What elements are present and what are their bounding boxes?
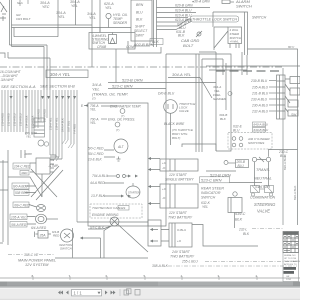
label 109-C RED (13, 202, 30, 208)
svg-text:REAR STEER: REAR STEER (201, 187, 224, 191)
label 308-A BLK with phantom wire (152, 264, 297, 268)
comb connector feet (53, 140, 74, 161)
boxed label 106-A RED (10, 222, 27, 228)
labels WHT rows top-left (0, 70, 22, 82)
svg-text:COMBINATION: COMBINATION (250, 196, 275, 200)
label 24V START TWO BATTERY (170, 250, 195, 259)
label 632-E and air cylinder switches dashed box (228, 125, 272, 150)
svg-text:BLK: BLK (235, 218, 243, 222)
label 614-B RED (52, 230, 60, 238)
label THROTTLE LOCK VALVE (179, 102, 196, 113)
svg-text:(7): (7) (116, 128, 119, 132)
svg-text:YEL: YEL (26, 135, 32, 139)
alternator symbol top-left edge (0, 2, 7, 21)
svg-text:5/0-C RED: 5/0-C RED (88, 147, 104, 151)
label 30-1A YEL (40, 1, 50, 9)
svg-text:SENDER: SENDER (213, 97, 227, 101)
svg-text:+O: +O (162, 187, 167, 191)
svg-text:THROTTLE LOCK SWITCH: THROTTLE LOCK SWITCH (192, 18, 237, 22)
connector arrows box2 (148, 185, 167, 205)
svg-text:ENG. WATER TEMP.: ENG. WATER TEMP. (110, 105, 141, 109)
label REAR STEER INDICATOR SWITCH (201, 187, 224, 200)
relay block upper left panel (34, 118, 45, 137)
alarm switch stub box (222, 0, 234, 4)
svg-text:SEE SECTION A-A: SEE SECTION A-A (1, 84, 36, 89)
phantom wire 232-L BLK (238, 228, 283, 237)
svg-text:6/0-A BLU: 6/0-A BLU (13, 185, 28, 189)
svg-text:BLK: BLK (220, 117, 227, 121)
svg-text:D/0-B BLU: D/0-B BLU (158, 92, 175, 96)
boxed label RED small (20, 171, 29, 176)
svg-text:104-C RED: 104-C RED (14, 165, 31, 169)
svg-text:INDICATOR: INDICATOR (201, 191, 221, 195)
svg-text:SWITCH: SWITCH (252, 16, 267, 20)
label 255-L BLU with dashed wire (181, 260, 297, 264)
rear steer connector box (228, 198, 242, 229)
label 304-B BLK (219, 113, 227, 121)
svg-text:210-A RED: 210-A RED (0, 113, 4, 126)
labels inside shift select box (134, 3, 148, 38)
svg-text:/09-C RED: /09-C RED (13, 204, 30, 208)
svg-text:218-A YEL: 218-A YEL (48, 117, 52, 130)
svg-text:704-A BLU: 704-A BLU (92, 174, 109, 178)
connector arrow into panel (80, 237, 83, 240)
svg-text:105-A YEL: 105-A YEL (11, 216, 26, 220)
small connector oval 1 (29, 205, 46, 212)
boxed label 104-C RED (13, 163, 31, 169)
svg-text:12V START: 12V START (169, 173, 188, 177)
ignition switch circle (59, 229, 74, 251)
svg-text:YEL: YEL (58, 15, 65, 19)
boxed label 304-A YEL (46, 70, 88, 78)
svg-text:231-B BLU: 231-B BLU (251, 92, 269, 96)
label 620-A YEL (104, 2, 114, 10)
terminal strip (277, 75, 286, 119)
svg-text:308-C VE: 308-C VE (24, 253, 39, 257)
boxed label 508 RED (14, 190, 29, 196)
circular connector (27, 214, 58, 224)
wire: top-left horizontal bus lines (0, 25, 131, 90)
svg-text:13-E BLK: 13-E BLK (88, 158, 103, 162)
wire 523-B ORN with label (108, 78, 216, 83)
svg-text:640-B BLU: 640-B BLU (254, 128, 270, 132)
viewer toolbar (0, 287, 300, 300)
battery connector circle (110, 217, 119, 226)
svg-text:THIS DRAWING: THIS DRAWING (284, 260, 300, 263)
svg-text:255-L BLU: 255-L BLU (181, 260, 198, 264)
svg-text:YEL: YEL (105, 6, 112, 10)
svg-text:4 WHL: 4 WHL (230, 40, 239, 44)
svg-text:80 V: 80 V (288, 45, 295, 49)
label CAB GRD BOLT (181, 38, 199, 48)
svg-text:508 RED: 508 RED (15, 191, 29, 195)
fuel sender circle (228, 92, 232, 96)
boxed label BLK (150, 39, 163, 45)
wires entering right nest (199, 52, 300, 98)
svg-text:SWIT: SWIT (136, 34, 145, 38)
svg-text:211-A RED: 211-A RED (6, 113, 10, 126)
shift select switch box (131, 0, 157, 47)
svg-text:UP TO 1234: UP TO 1234 (284, 258, 297, 260)
engine box (88, 103, 148, 226)
svg-text:SWITCHES: SWITCHES (248, 141, 265, 145)
combination steering valve solenoids (251, 186, 274, 197)
svg-text:6/4-A RED: 6/4-A RED (31, 226, 47, 230)
svg-text:50/-C RED: 50/-C RED (88, 152, 104, 156)
svg-text:YEL: YEL (90, 108, 96, 112)
wire 523-C BRN with label (108, 84, 166, 89)
svg-text:523-B ORN: 523-B ORN (122, 78, 143, 83)
wire: long right line from column box (248, 49, 298, 225)
svg-text:BLU: BLU (136, 11, 143, 15)
label ALARM SWITCH (235, 0, 252, 9)
svg-text:5/7-C BLK: 5/7-C BLK (90, 226, 105, 230)
svg-text:YEC: YEC (42, 5, 50, 9)
svg-text:CRAB: CRAB (97, 45, 107, 49)
svg-text:212-A BLU: 212-A BLU (12, 113, 16, 126)
right edge vertical with rotated label (283, 68, 297, 225)
battery box 2 (160, 184, 198, 208)
indicator circles left panel (38, 140, 49, 146)
svg-text:+O: +O (177, 239, 182, 243)
svg-text:BRN: BRN (136, 3, 144, 7)
svg-text:SWITCH: SWITCH (236, 4, 252, 9)
svg-text:BLACK WIRE: BLACK WIRE (164, 122, 185, 126)
connector arrows box1 (148, 157, 167, 171)
svg-text:SERIAL NO: SERIAL NO (284, 254, 296, 257)
svg-text:.3/A WHT: .3/A WHT (0, 78, 15, 82)
svg-text:12V START: 12V START (169, 211, 188, 215)
label COMBINATION STEERING VALVE (250, 196, 276, 214)
battery box 1 (160, 159, 198, 171)
svg-text:VALVE: VALVE (179, 109, 190, 113)
svg-text:VALVE: VALVE (257, 209, 270, 214)
svg-text:304-A YEL: 304-A YEL (50, 72, 71, 77)
wire comb left panel (2, 90, 47, 135)
boxed label 105-A YEL (10, 214, 27, 220)
svg-text:239-B BLU: 239-B BLU (250, 79, 268, 83)
svg-text:610-A BLU: 610-A BLU (175, 9, 192, 13)
heavy phantom cable dashes (216, 70, 280, 72)
svg-text:213-A BLU: 213-A BLU (18, 113, 22, 126)
wire from 4WS box down (115, 49, 117, 83)
svg-text:232-A BLU: 232-A BLU (251, 110, 269, 114)
indicator lamp circle (233, 192, 237, 196)
label PIN GRD YEL (25, 131, 37, 139)
label 304-A YEL under box top (168, 72, 200, 78)
E arrow into engine box (81, 104, 88, 108)
svg-text:35A: 35A (40, 234, 47, 238)
svg-text:OUT BLU: OUT BLU (66, 121, 70, 132)
wire elbow bundle into left panel (31, 155, 63, 200)
svg-text:APPLIES TO: APPLIES TO (284, 263, 297, 266)
title block text rows (283, 253, 300, 282)
svg-text:-STMP: -STMP (48, 164, 59, 168)
svg-text:308-A BLK: 308-A BLK (152, 264, 169, 268)
svg-text:BLU: BLU (233, 129, 240, 133)
top edge wire stubs (20, 0, 28, 6)
svg-text:1234: 1234 (286, 279, 292, 281)
svg-text:TWO BATTERY: TWO BATTERY (170, 255, 195, 259)
svg-text:523-C BRN: 523-C BRN (201, 178, 222, 183)
label 523-C BRN lower with wire (200, 177, 263, 183)
tighten cables note dashed box (90, 204, 142, 218)
panel wires and diagonals (3, 150, 42, 245)
label CR7 SOLT (16, 13, 32, 21)
wires from connector circle to bottom (55, 225, 148, 259)
svg-text:BLK: BLK (178, 34, 185, 38)
svg-text:TRANS.: TRANS. (256, 168, 270, 172)
toolbar page nav controls (58, 289, 140, 296)
boxed labels 640-A BLU 640-B BLU (253, 122, 270, 132)
svg-text:ALT: ALT (117, 145, 125, 149)
label 523-B ORN lower (206, 171, 236, 178)
label 632-K YEL (201, 201, 211, 209)
svg-text:RED: RED (53, 234, 60, 238)
svg-text:830-A BLK: 830-A BLK (283, 156, 287, 170)
label 304-A YEL (top) (70, 0, 80, 8)
svg-text:DRN-A BLK: DRN-A BLK (60, 118, 64, 132)
right label column 239-B BLU etc (250, 79, 269, 114)
svg-text:24V START: 24V START (171, 250, 191, 254)
rotated wire number labels on comb (0, 109, 76, 134)
svg-text:44-A RED: 44-A RED (90, 181, 105, 185)
svg-text:232-L: 232-L (238, 228, 247, 232)
svg-text:640-A BLU: 640-A BLU (254, 123, 269, 127)
label 539-C BLK (235, 212, 246, 222)
title block revision table (283, 232, 299, 253)
4 wheel steering switch box (89, 28, 135, 50)
svg-text:523-C BRN: 523-C BRN (112, 84, 133, 89)
label 304-A YEL fuel sender (213, 85, 227, 101)
relay symbol inside 4WS box (109, 33, 117, 44)
svg-text:TWO BATTERY: TWO BATTERY (168, 216, 193, 220)
svg-text:610-A BLU: 610-A BLU (175, 14, 192, 18)
throttle lock valve circle (164, 100, 178, 145)
alternator circle in engine box (88, 139, 128, 162)
svg-text:620-B GRN: 620-B GRN (175, 4, 193, 8)
svg-text:O-BLU: O-BLU (177, 228, 186, 232)
svg-text:ENGINE WIRING: ENGINE WIRING (92, 213, 119, 217)
boxed label 610-A BLU (12, 183, 29, 189)
label 304-A YEL (mid) (56, 11, 66, 19)
label 44-A RED row and starter (90, 181, 140, 198)
svg-text:BOLT: BOLT (183, 43, 194, 48)
cab ground bolt symbol (196, 31, 202, 37)
svg-text:830-A BLK: 830-A BLK (293, 186, 297, 200)
svg-text:SWITCH: SWITCH (60, 247, 73, 251)
label HYD OIL TEMP SENDER (113, 13, 128, 25)
label 602-B BLK bracket (128, 41, 161, 53)
wire: verticals from top labels (58, 0, 100, 67)
svg-text:-0008: -0008 (24, 152, 32, 156)
label 314-A YEL (87, 12, 96, 20)
svg-text:TIGHTEN BLK CABLES: TIGHTEN BLK CABLES (92, 206, 126, 210)
label 704-A BLU row with terminals (92, 174, 138, 178)
svg-text:Y-A RED: Y-A RED (72, 124, 76, 134)
label 706-A YEL / ENG WATER TEMP with sender circle (90, 104, 141, 118)
svg-text:304-A YEL: 304-A YEL (172, 72, 191, 77)
svg-text:1 / 1: 1 / 1 (74, 291, 83, 296)
svg-text:RED: RED (22, 171, 28, 175)
label BLACK WIRE TO THROTTLE BODY BOLT (164, 122, 193, 140)
wire CONN to shift box (135, 45, 150, 47)
svg-text:SENDER: SENDER (113, 21, 128, 25)
svg-text:13-F BLK: 13-F BLK (91, 194, 106, 198)
stub wires from labels to terminal strip (269, 81, 276, 112)
svg-text:BLK: BLK (136, 18, 143, 22)
svg-text:(7): (7) (92, 97, 96, 101)
inner box bottom right of throttle (182, 144, 216, 151)
viewer horizontal scrollbar (0, 282, 300, 287)
main power panel phantom label (8, 253, 55, 257)
svg-text:12V SYSTEM: 12V SYSTEM (25, 263, 49, 267)
svg-text:PIN. GRD: PIN. GRD (25, 131, 37, 135)
labels on wire fan (175, 0, 210, 38)
svg-text:219-A YEL: 219-A YEL (54, 117, 58, 130)
label 4 WHL STEER SWITCH (230, 28, 242, 44)
svg-text:SWITCH: SWITCH (201, 196, 216, 200)
hyd oil temp sender circle (106, 13, 111, 27)
long verticals center-right (196, 52, 247, 152)
svg-text:BLK: BLK (243, 232, 250, 236)
svg-text:216-A RED: 216-A RED (36, 109, 40, 122)
svg-text:CR3 BOLT: CR3 BOLT (16, 17, 32, 21)
label 314-A YEL TRANS OIL TEMP (92, 82, 128, 101)
wire trans switch to right edge (269, 150, 298, 157)
label 12V START SINGLE BATTERY (165, 173, 194, 182)
left edge stub wires (0, 162, 8, 243)
svg-text:SEE SECTION B-B: SEE SECTION B-B (40, 84, 75, 89)
relay boxes right edge (285, 77, 300, 117)
fuse box 35A (35, 231, 52, 239)
svg-text:YEL: YEL (90, 121, 96, 125)
svg-text:539-C: 539-C (235, 212, 246, 216)
svg-text:233-A BLU: 233-A BLU (250, 98, 268, 102)
label 13-F BLK row (91, 194, 131, 198)
wires right of battery 3 (77, 222, 258, 246)
svg-text:STEERING: STEERING (254, 202, 276, 207)
svg-text:STARTER: STARTER (128, 191, 140, 195)
svg-text:YEL: YEL (89, 16, 96, 20)
svg-text:/06-A RED: /06-A RED (10, 223, 27, 227)
wire: left double vertical bus (10, 0, 12, 47)
label 230-C BLK (278, 150, 289, 158)
label 12V START TWO BATTERY (168, 211, 193, 220)
trans neutral switch symbol (252, 157, 270, 186)
svg-text:610-A BLU: 610-A BLU (175, 18, 192, 22)
label MAIN POWER PANEL 12V SYSTEM (18, 259, 56, 268)
svg-text:YEL: YEL (71, 4, 78, 8)
svg-text:●30-A GRN: ●30-A GRN (192, 0, 210, 4)
label 4 WHEEL STEERING SWITCH (92, 34, 136, 49)
battery box 3 outer (148, 220, 192, 247)
svg-text:235-A BLU: 235-A BLU (251, 86, 269, 90)
svg-text:SELECT: SELECT (134, 29, 148, 33)
phantom section line (0, 66, 283, 68)
svg-text:BLU: BLU (238, 164, 245, 168)
svg-text:NEUTRAL: NEUTRAL (254, 177, 272, 181)
drawing bottom border with zone ticks (0, 274, 300, 280)
big mid box outline (148, 54, 231, 226)
label 700-A / ENG OIL PRESS with sender circle (90, 118, 135, 133)
wire right bracket above main power panel (72, 228, 74, 258)
svg-text:(TRANS. OIL TEMP.: (TRANS. OIL TEMP. (92, 92, 128, 97)
svg-text:MAIN POWER PANEL: MAIN POWER PANEL (18, 259, 56, 263)
svg-text:230-A BLU: 230-A BLU (251, 104, 269, 108)
steering column switch box nest (213, 12, 248, 55)
svg-text:BLK: BLK (152, 40, 159, 44)
svg-text:SINGLE BATTERY: SINGLE BATTERY (165, 178, 194, 182)
left panel component boxes (21, 150, 54, 174)
boxed label 205-B BLU (224, 160, 249, 168)
wire comb second group (50, 90, 77, 222)
connector arrows box3 (150, 228, 186, 243)
comb arrowheads (9, 96, 76, 99)
label TRANS NEUTRAL SWITCH (254, 168, 272, 189)
svg-text:YEL: YEL (202, 205, 208, 209)
svg-text:ENG. OIL PRESS.: ENG. OIL PRESS. (108, 118, 135, 122)
svg-text:SHIFT: SHIFT (135, 25, 146, 29)
svg-text:214-A BLK: 214-A BLK (24, 115, 28, 128)
wire fan right of shift switch (157, 8, 211, 30)
svg-text:BOLT): BOLT) (172, 136, 180, 140)
